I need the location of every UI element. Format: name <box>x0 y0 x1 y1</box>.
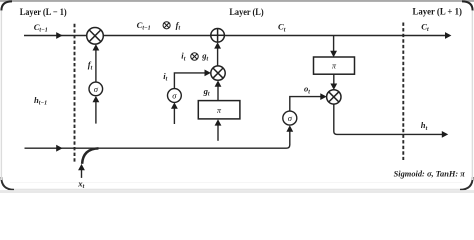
arrow on C line <box>56 32 62 39</box>
wire sigma-L up to multiply-L <box>95 50 97 83</box>
wire multiply-M up to plus <box>217 48 219 67</box>
pi box M <box>198 101 240 119</box>
arrow h_t end <box>442 131 448 138</box>
svg-text:Sigmoid: σ, TanH: π: Sigmoid: σ, TanH: π <box>394 168 466 178</box>
arrow o into multiply-R <box>320 93 326 100</box>
wire i elbow sigma-M to multiply-M <box>174 73 205 89</box>
arrow pi-R into multiply-R <box>330 84 337 90</box>
wire pi-M up to multiply-M <box>217 86 219 100</box>
frame bottom faint line <box>10 181 462 184</box>
arrow i into multiply-M <box>205 70 211 77</box>
arrow f into multiply-L <box>93 44 100 50</box>
arrow into pi-M box <box>215 119 222 125</box>
sigma unit L <box>89 82 103 96</box>
sigma unit M <box>168 89 182 103</box>
frame corner bottom-right <box>460 177 473 190</box>
svg-text:Layer (L): Layer (L) <box>229 7 263 18</box>
arrow C output end <box>445 32 451 39</box>
mini otimes glyph in i label <box>191 53 199 61</box>
arrow into sigma-L <box>93 96 100 102</box>
arrow rail into sigma-R <box>286 125 293 131</box>
multiply node L (circle-cross) <box>87 28 104 45</box>
frame right edge <box>471 11 473 180</box>
multiply node R (circle-cross) <box>327 90 341 104</box>
dashed separator right <box>402 23 404 161</box>
dashed separator left <box>74 24 76 163</box>
arrow on h rail <box>56 145 62 152</box>
frame left edge <box>0 11 2 180</box>
wire input below sigma-M <box>173 108 175 124</box>
wire input below pi-M <box>217 125 219 141</box>
wire branch C to right pi box <box>333 36 335 53</box>
wire x_t stem <box>81 170 83 178</box>
arrow x_t up <box>78 164 85 170</box>
pi box R <box>314 57 355 74</box>
wire x_t curve into rail <box>82 148 98 163</box>
plus node (circle-plus) <box>211 29 225 43</box>
wire C main line <box>24 35 446 37</box>
wire h_t output <box>334 103 443 134</box>
arrow into plus node <box>214 42 221 48</box>
wire input below sigma-L <box>95 102 97 124</box>
svg-text:Layer (L + 1): Layer (L + 1) <box>413 7 462 18</box>
arrow pi-M into multiply-M <box>215 80 222 86</box>
arrow into sigma-M <box>171 102 178 108</box>
sigma unit R <box>283 111 297 125</box>
frame bottom edge <box>14 188 460 190</box>
wire h rail <box>25 131 290 148</box>
frame bottom band <box>0 190 474 193</box>
arrow C into pi-R box <box>330 51 337 57</box>
multiply node M (circle-cross) <box>211 66 225 80</box>
frame corner top-right <box>462 1 473 10</box>
frame corner bottom-left <box>1 177 14 190</box>
wire pi-R down to multiply-R <box>333 74 335 84</box>
mini otimes glyph in C label <box>163 22 170 29</box>
svg-text:Layer (L − 1): Layer (L − 1) <box>20 7 67 18</box>
frame top edge <box>0 0 474 2</box>
wire o elbow sigma-R to multiply-R <box>290 97 321 112</box>
frame corner top-left <box>1 1 12 10</box>
